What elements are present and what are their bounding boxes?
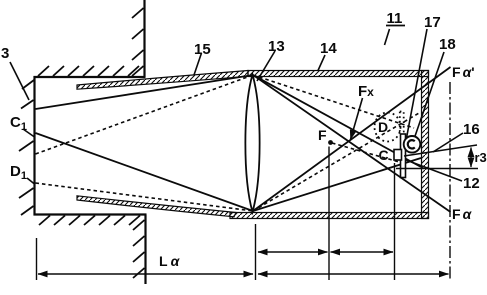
sensing element at C: [394, 150, 402, 161]
ray C1 upper solid to lens top: [36, 75, 254, 109]
dimension lens to F: [258, 251, 328, 253]
svg-text:C: C: [379, 147, 389, 163]
dimension lens to right reference: [258, 273, 449, 275]
blur spot D dotted outline: [375, 113, 401, 142]
svg-text:Fα: Fα: [452, 206, 473, 222]
detector plate 12: [401, 134, 406, 178]
svg-text:17: 17: [424, 14, 441, 31]
enclosure bottom wall: [230, 213, 429, 219]
label Fx with arrow to crossing point: [351, 83, 375, 140]
dimension L-alpha: [38, 273, 253, 275]
focal point F dot: [328, 140, 333, 145]
svg-text:Fx: Fx: [358, 83, 374, 100]
ball lens element (outer circle): [404, 136, 421, 153]
ball lens element inner C shape: [408, 140, 415, 148]
label D1: [10, 163, 35, 184]
svg-text:14: 14: [320, 40, 337, 57]
svg-text:Fα': Fα': [452, 64, 475, 80]
enclosure top wall 14: [248, 71, 429, 77]
svg-text:11: 11: [387, 10, 403, 27]
wall 3 bottom horizontal segment: [34, 213, 147, 215]
extension line below lens axis: [255, 224, 257, 280]
label 13: [257, 38, 285, 81]
lens 13: [245, 75, 259, 213]
r3 dimension arrow: [470, 148, 472, 168]
ray D1 lower dashed to lens bottom: [36, 183, 254, 211]
blur spot dotted column on plate: [400, 112, 404, 132]
label C1: [10, 114, 35, 137]
label 3: [1, 45, 29, 100]
svg-text:18: 18: [439, 36, 456, 53]
ray lens top to D dashed: [253, 75, 414, 128]
wall hatching left of upper vertical segment: [132, 8, 144, 76]
wall 3 upper vertical segment: [143, 0, 145, 77]
extension line below left wall: [36, 238, 38, 280]
svg-text:Lα: Lα: [159, 253, 181, 269]
svg-text:D: D: [378, 119, 388, 135]
baffle lower curved shield: [77, 196, 236, 217]
dashed line from F to element C: [332, 143, 401, 163]
wall 3 top horizontal segment: [34, 76, 146, 78]
extension line below detector surface: [394, 163, 396, 280]
wall 3 lower vertical segment: [144, 215, 146, 285]
svg-text:16: 16: [463, 121, 480, 138]
wall hatching above top horizontal segment: [38, 66, 139, 76]
extension line below focal point F: [328, 147, 330, 281]
svg-text:F: F: [318, 127, 327, 143]
wall hatching below bottom horizontal segment: [39, 216, 140, 226]
wall hatching left of lower vertical segment: [133, 220, 145, 278]
ray C1 lower solid to lens bottom: [36, 133, 254, 211]
label 15: [194, 41, 211, 75]
dimension F to detector: [331, 251, 394, 253]
ray lens bottom to D dashed: [253, 113, 419, 211]
baffle 15 (upper curved shield): [77, 71, 248, 90]
svg-text:13: 13: [268, 38, 285, 55]
r3 lower reference line: [396, 168, 478, 170]
extension line right dash-dot: [449, 82, 451, 280]
label 12: [406, 160, 480, 192]
r3 upper reference line: [404, 145, 477, 156]
ray lens top to point C: [253, 75, 421, 167]
label 14: [318, 40, 337, 71]
svg-text:3: 3: [1, 45, 9, 62]
label 18: [413, 36, 456, 142]
svg-text:12: 12: [463, 175, 480, 192]
label 11 underlined figure number: [385, 10, 406, 45]
ray lens bottom to point C: [253, 158, 421, 211]
label 17: [405, 14, 441, 146]
wall hatching left of aperture edge: [19, 80, 34, 215]
label 16: [433, 121, 480, 152]
wall 3 left aperture edge: [33, 76, 35, 216]
ray lens top to F-alpha: [253, 75, 451, 212]
ray D1 upper dashed to lens top: [36, 75, 254, 154]
enclosure right wall: [422, 71, 429, 219]
ray lens bottom to F-alpha-prime: [253, 67, 451, 211]
svg-text:r3: r3: [475, 150, 487, 165]
svg-text:15: 15: [194, 41, 211, 58]
